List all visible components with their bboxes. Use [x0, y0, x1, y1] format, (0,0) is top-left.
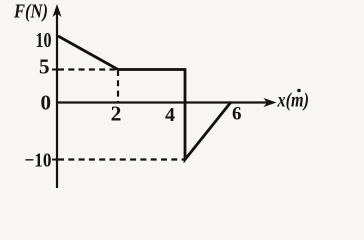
tick at F=-10 [52, 159, 58, 161]
svg-text:F(N): F(N) [13, 1, 48, 23]
force curve [58, 36, 231, 160]
y-axis arrowhead [53, 4, 62, 17]
svg-text:4: 4 [165, 104, 175, 126]
x-axis arrowhead [264, 98, 277, 107]
tick at F=5 [52, 69, 58, 71]
svg-text:−10: −10 [25, 150, 52, 172]
y-axis [56, 10, 58, 188]
svg-text:0: 0 [41, 91, 52, 115]
dashed vertical at x=2 [117, 70, 119, 102]
dashed line F=5 from axis to x=2 [58, 68, 118, 70]
svg-text:x(m): x(m) [277, 90, 309, 112]
dot above m [297, 89, 301, 93]
x-axis [56, 101, 268, 103]
svg-text:10: 10 [36, 28, 52, 52]
svg-text:5: 5 [39, 55, 50, 79]
svg-text:2: 2 [111, 102, 122, 126]
svg-text:6: 6 [232, 104, 242, 125]
dashed line F=-10 from axis to x=4 [58, 158, 184, 160]
